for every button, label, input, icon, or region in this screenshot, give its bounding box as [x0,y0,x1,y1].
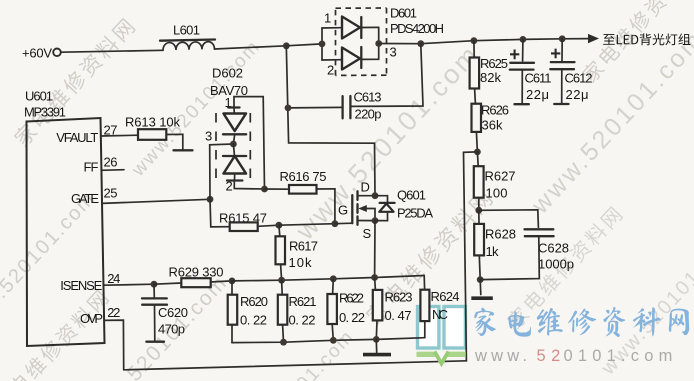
svg-text:220p: 220p [355,107,382,122]
diode D602 top diode [223,108,246,145]
output arrow to LED backlight [588,33,690,45]
svg-text:OVP: OVP [80,311,103,326]
svg-text:0. 22: 0. 22 [240,313,267,328]
resistor R629 [169,265,233,288]
ground below bottom rail [363,339,391,354]
node Q601 source junction [372,217,379,224]
wire GATE junction up to D602 pin3 [210,144,234,199]
svg-text:R627: R627 [485,169,516,184]
dual diode D601 dashed box [336,8,387,75]
svg-text:22: 22 [107,305,120,320]
watermark tile behind C628 [505,205,624,330]
wire D601 to output arrow [379,39,590,44]
diode D601 bottom diode [322,47,379,70]
ground below R628 [471,280,493,299]
dual diode D602 dashed edges [216,113,250,180]
resistor R625 [470,41,508,104]
svg-text:22μ: 22μ [566,87,589,102]
node +60V input terminal [22,46,61,61]
svg-text:FF: FF [84,159,99,174]
pin 22 OVP [80,305,124,370]
pin 26 FF [84,155,125,175]
node Q601 drain junction [372,192,379,199]
wire bottom rail [232,338,425,343]
node R621 top junction [278,277,285,284]
svg-text:L601: L601 [173,23,200,38]
svg-text:R625: R625 [480,56,508,71]
node C612 top junction [559,35,566,42]
node R621 bottom junction [280,339,287,346]
node R625 top junction [471,37,478,44]
svg-text:36k: 36k [482,118,504,133]
svg-text:www.: www. [474,347,531,365]
node R627/R628 junction [475,207,482,214]
inductor L601 [160,23,215,51]
watermark tile top-right corner [580,0,694,84]
diode D601 top diode [322,17,379,39]
svg-text:Q601: Q601 [397,188,426,203]
resistor R621 [278,280,317,342]
capacitor C612 [550,39,592,104]
source stub [358,220,376,222]
svg-text:470p: 470p [158,322,185,337]
resistor R613 [125,115,183,150]
resistor R626 [472,103,510,152]
pin 24 ISENSE [60,271,154,293]
svg-text:R626: R626 [481,103,509,118]
svg-text:1k: 1k [486,244,500,259]
logo title 家电维修资料网 [474,307,689,337]
diode D601 label [390,6,444,37]
watermark tile center-bottom [221,326,358,381]
svg-text:MP3391: MP3391 [24,105,66,120]
pin 25 GATE [71,185,210,206]
svg-text:P25DA: P25DA [397,206,433,221]
node OVP divider junction [474,149,481,156]
wire OVP bottom run [124,361,467,370]
svg-text:R622: R622 [339,291,364,306]
wire R615 node to gate node [279,224,335,226]
wire +60V to L601 [61,50,163,52]
diode D602 pin1 tie to R616 line [234,97,265,189]
diode D602 pin2 bar [227,179,242,181]
pin 27 VFAULT [56,123,138,146]
svg-text:C613: C613 [354,90,382,105]
diode D601 left rail junction [319,41,326,48]
svg-text:0. 22: 0. 22 [339,310,365,325]
watermark tile mid-right lower [364,188,494,326]
svg-text:NC: NC [432,307,448,322]
drain stub [358,195,376,197]
wire Q601 source down to ISENSE line [374,221,376,278]
watermark tile left edge [0,187,100,339]
node GATE junction [207,196,214,203]
node A junction [283,42,290,49]
node R616 left junction [261,186,268,193]
svg-text:1000p: 1000p [538,257,574,272]
node C613 top junction [417,40,424,47]
resistor R617 [276,225,319,280]
svg-text:25: 25 [104,185,118,200]
watermark tile bottom-left corner [0,288,110,381]
resistor R615 [219,211,279,232]
svg-text:+60V: +60V [22,46,52,61]
wire ISENSE rail [232,276,424,281]
resistor R616 [265,169,335,224]
svg-text:R628: R628 [485,227,516,242]
svg-text:24: 24 [107,271,120,286]
svg-text:1: 1 [324,11,331,26]
Q601 body diode [375,196,395,221]
watermark tile top-left [12,17,136,148]
resistor R620 [228,281,268,343]
svg-text:R617: R617 [289,239,318,254]
node R615/R617 junction [276,222,283,229]
svg-text:R620: R620 [240,294,268,309]
svg-text:22μ: 22μ [526,87,549,102]
svg-text:0. 22: 0. 22 [289,313,316,328]
wire GATE junction down to R615 [210,199,230,227]
node R620 top junction [229,278,236,285]
transistor Q601 P25DA MOSFET [338,180,433,242]
resistor R628 [474,210,516,279]
svg-text:3: 3 [205,129,212,144]
capacitor C613 [288,44,423,122]
svg-text:2: 2 [327,63,334,78]
svg-text:C620: C620 [158,305,188,320]
body stub with arrow [364,209,375,221]
watermark tile right [525,25,694,220]
svg-text:VFAULT: VFAULT [56,130,98,145]
svg-text:0101.com: 0101.com [564,347,678,365]
svg-text:ISENSE: ISENSE [60,278,102,293]
capacitor C611 [510,39,552,104]
svg-text:100: 100 [486,186,508,201]
logo book icon left page [418,307,439,349]
node C620 junction [151,281,158,288]
wire L601 to node A [215,46,287,49]
resistor R627 [474,152,516,210]
svg-text:R623: R623 [385,290,413,305]
diode D602 pin1 bar [228,106,239,108]
svg-text:82k: 82k [480,70,502,85]
svg-text:R624: R624 [431,289,460,304]
node gate junction [332,220,339,227]
logo book icon right page [444,307,465,349]
resistor R623 [373,278,413,340]
diode D602 bottom diode [223,144,246,180]
wire ISENSE node to R629 [154,283,181,284]
svg-text:D601: D601 [390,6,417,21]
wire gate node to Q601 gate [335,222,352,225]
svg-text:PDS4200H: PDS4200H [390,21,444,36]
wire node A to D601 left rail [286,44,322,46]
node R622 bottom junction [330,337,337,344]
svg-text:R621: R621 [289,294,317,309]
capacitor C628 [479,210,574,280]
svg-text:3: 3 [390,45,397,60]
logo url www.520101.com [474,347,678,365]
svg-text:C612: C612 [565,71,593,86]
svg-text:G: G [338,203,348,218]
svg-text:26: 26 [104,155,118,170]
diode D601 right rail junction [375,40,382,47]
node D602 pin3 junction [230,141,237,148]
svg-text:GATE: GATE [71,191,99,206]
svg-text:S: S [363,226,372,241]
node R622 top junction [330,275,337,282]
svg-text:R616 75: R616 75 [280,169,327,184]
svg-text:C628: C628 [538,241,569,256]
svg-text:10k: 10k [289,255,313,270]
svg-text:C611: C611 [525,71,552,86]
resistor R624 [420,276,459,338]
watermark tile bottom-right corner [597,228,694,380]
resistor R622 [327,279,365,341]
svg-text:R613 10k: R613 10k [125,115,181,130]
watermark tile bottom-middle-left [82,271,232,381]
wire node A down to drain rail [286,46,375,196]
svg-text:U601: U601 [25,89,53,104]
ground after R613 [174,149,193,151]
channel segments [356,191,358,225]
node R623 top junction [371,274,378,281]
watermark tile near D602 [127,36,264,181]
node C611 top junction [520,36,527,43]
wire D602 pin2 to R616 node [234,181,264,190]
node R628 bottom junction [477,276,484,283]
svg-text:D602: D602 [212,66,243,81]
logo green book base [417,352,466,364]
diode D602 labels [205,66,248,194]
diode D601 left rail [321,28,323,60]
capacitor C620 [142,284,188,342]
IC U601 MP3391 box [24,89,105,347]
node C613 left junction [285,105,292,112]
gate plate [351,195,353,223]
svg-text:52: 52 [537,347,566,365]
node R623 bottom junction [373,336,380,343]
wire OVP riser to divider [464,152,478,361]
diode D601 pin labels [324,11,397,78]
watermark tile center big [289,38,486,246]
diode D601 right rail [378,27,380,59]
svg-text:0. 47: 0. 47 [385,308,412,323]
svg-text:D: D [361,180,370,195]
